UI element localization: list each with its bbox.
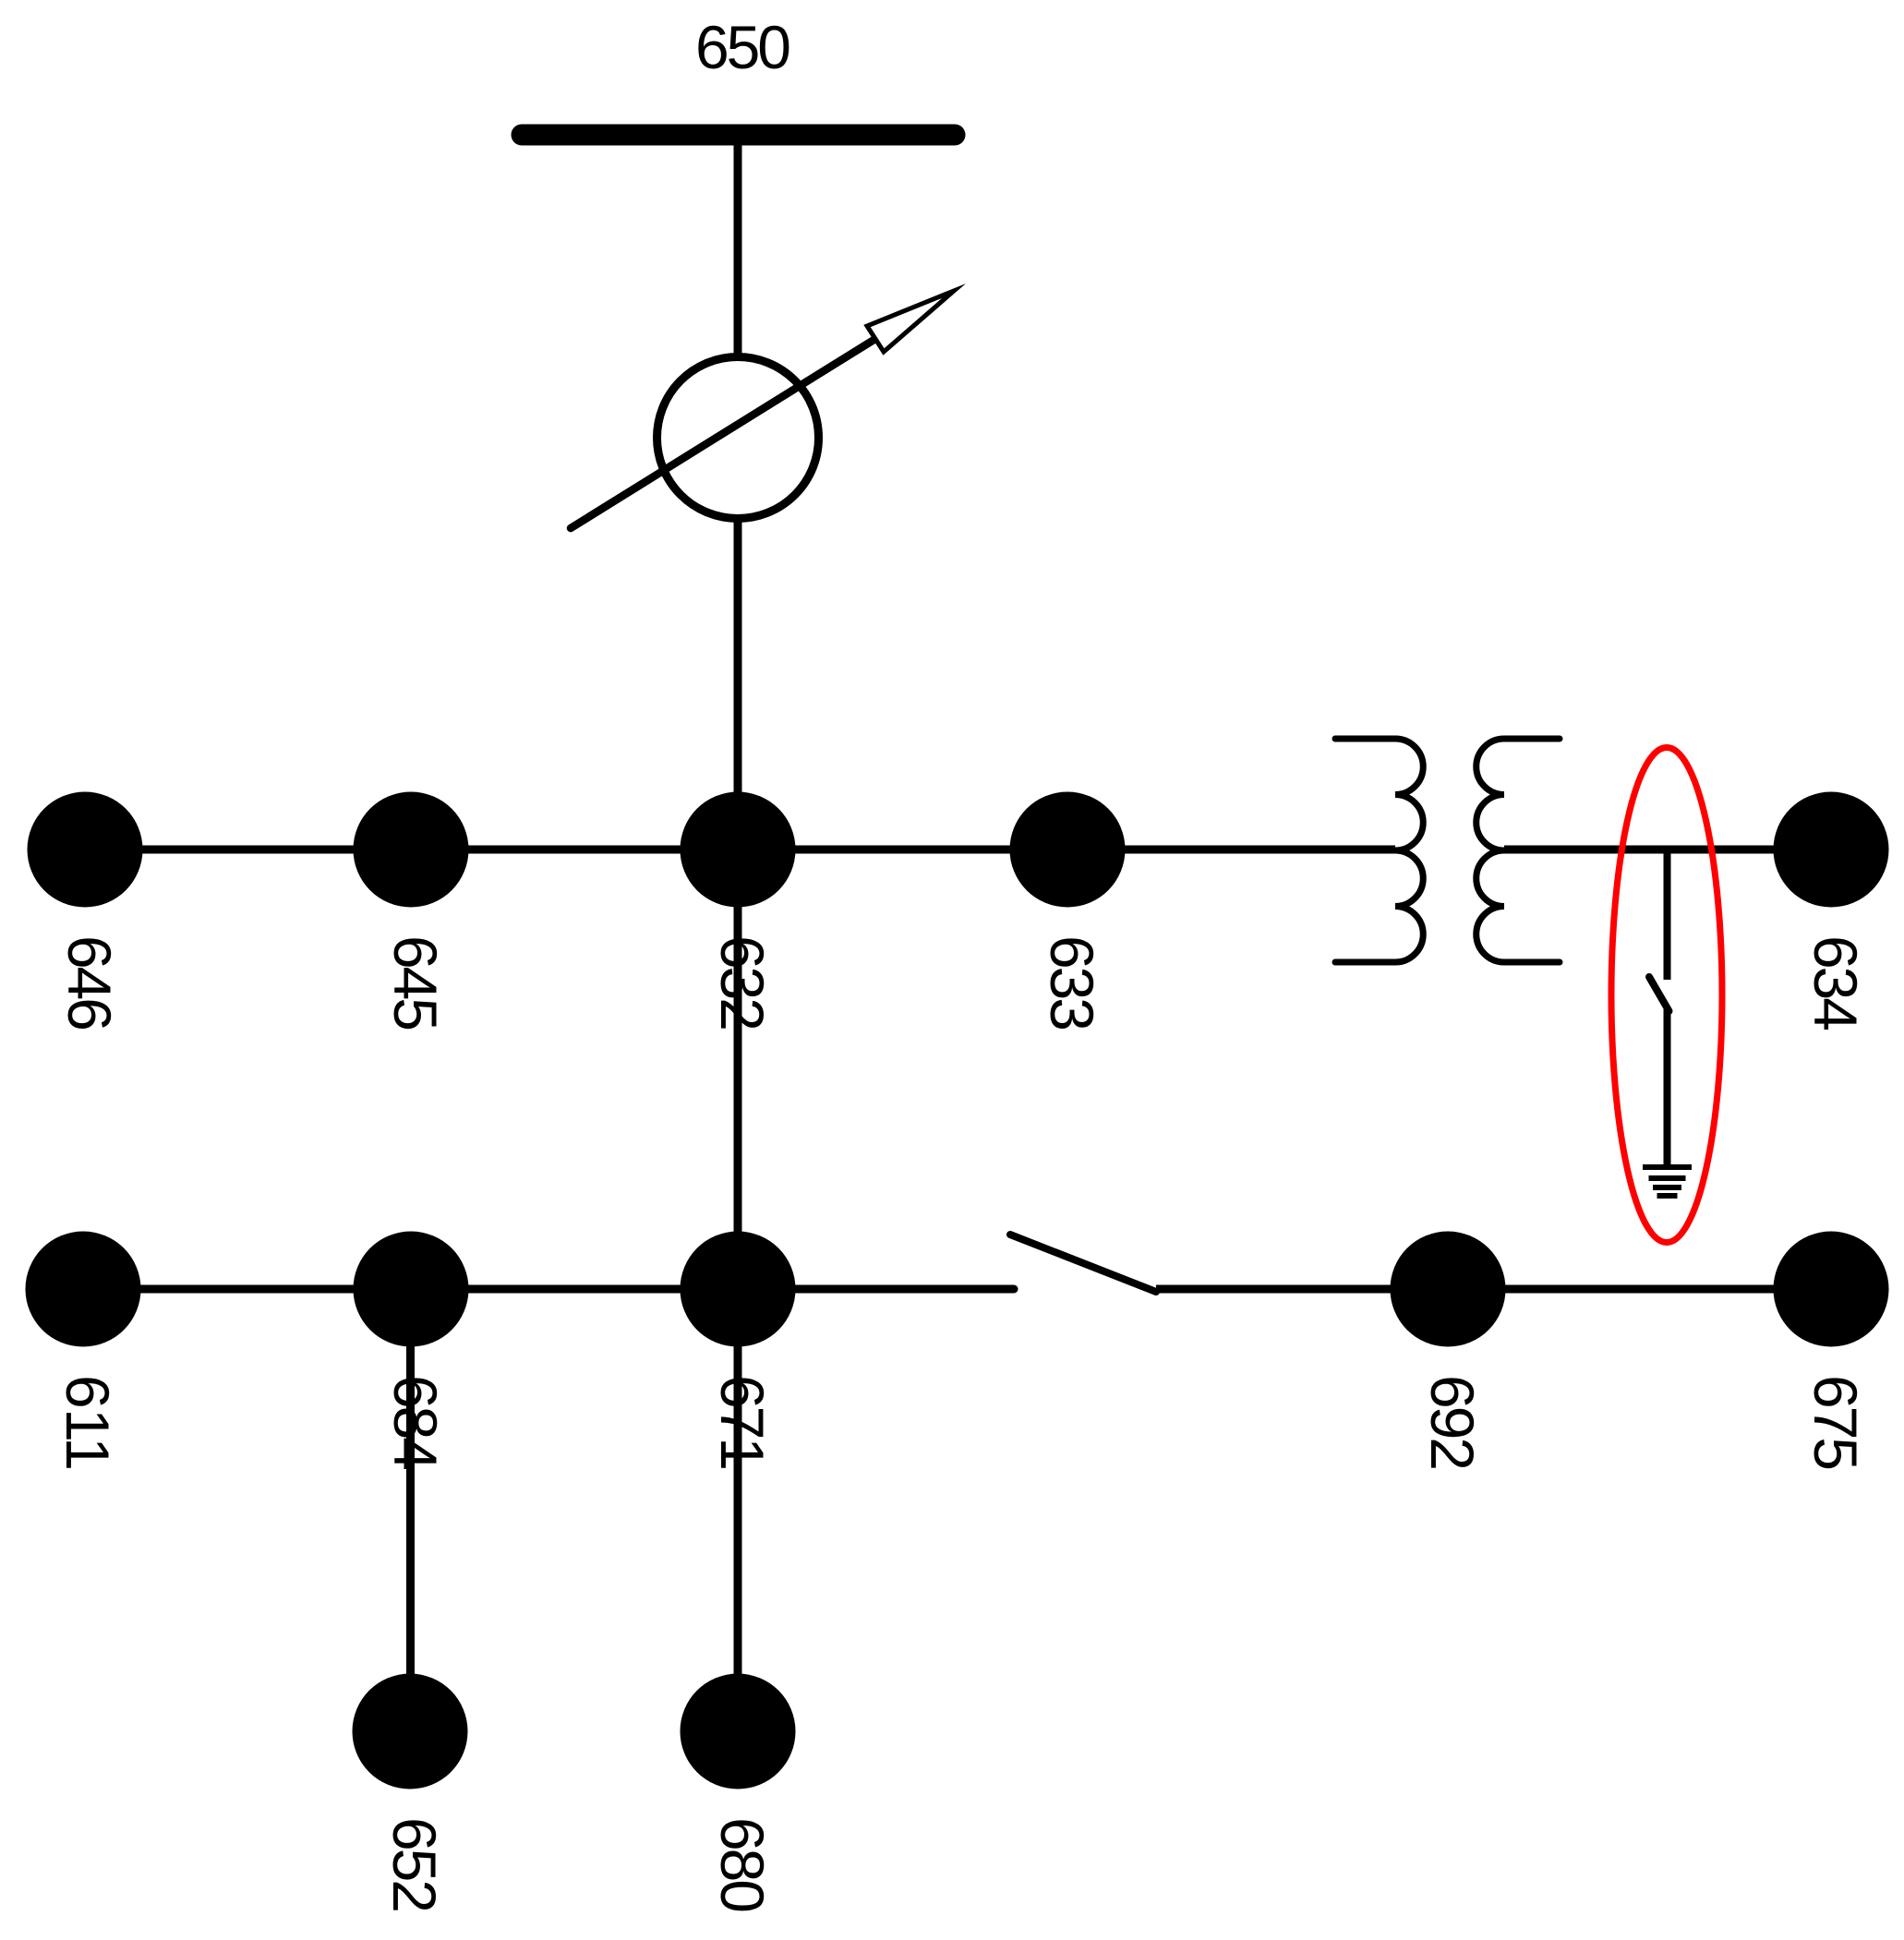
ground symbol bbox=[1643, 1167, 1692, 1196]
bus 650 bbox=[522, 125, 955, 146]
wire switch to 692 to 675 bbox=[1156, 1285, 1831, 1294]
node 634 bbox=[1774, 792, 1889, 908]
switch blade 671-692 bbox=[1010, 1235, 1156, 1292]
wire bus650 to regulator bbox=[734, 137, 742, 360]
wire 671 to 680 bbox=[734, 1289, 742, 1731]
regulator arrow shaft bbox=[571, 339, 875, 528]
node 684 bbox=[354, 1232, 469, 1347]
node 652 bbox=[353, 1674, 468, 1789]
svg-text:680: 680 bbox=[708, 1817, 777, 1913]
node 633 bbox=[1010, 792, 1126, 908]
node 632 bbox=[681, 792, 796, 908]
node 645 bbox=[354, 792, 469, 908]
transformer XFM-1 primary coil bbox=[1335, 739, 1423, 962]
svg-text:632: 632 bbox=[708, 935, 777, 1031]
highlight ellipse (red) around grounding switch bbox=[1611, 748, 1722, 1243]
wire 632 to 671 bbox=[734, 850, 742, 1289]
wire 684 to 652 bbox=[406, 1289, 415, 1731]
svg-text:645: 645 bbox=[381, 935, 450, 1031]
node 692 bbox=[1391, 1232, 1506, 1347]
svg-text:611: 611 bbox=[54, 1375, 122, 1471]
wire 611-684-671 bbox=[83, 1285, 1014, 1294]
grounding switch upper lead bbox=[1664, 850, 1671, 980]
svg-text:634: 634 bbox=[1802, 935, 1870, 1031]
regulator arrow head bbox=[867, 291, 954, 352]
node 671 bbox=[681, 1232, 796, 1347]
wire 646-645-632-633 to transformer primary bbox=[85, 846, 1395, 854]
wire transformer secondary to 634 bbox=[1504, 846, 1831, 854]
svg-text:652: 652 bbox=[380, 1817, 449, 1913]
svg-text:692: 692 bbox=[1418, 1375, 1487, 1471]
svg-text:646: 646 bbox=[55, 935, 124, 1031]
node 611 bbox=[26, 1232, 141, 1347]
voltage regulator RG60 circle bbox=[657, 357, 819, 519]
node 680 bbox=[681, 1674, 796, 1789]
transformer XFM-1 secondary coil bbox=[1476, 739, 1560, 962]
svg-text:671: 671 bbox=[708, 1375, 777, 1471]
svg-text:684: 684 bbox=[381, 1375, 450, 1471]
svg-text:650: 650 bbox=[695, 13, 791, 81]
svg-text:633: 633 bbox=[1038, 935, 1106, 1031]
node 646 bbox=[28, 792, 143, 908]
svg-text:675: 675 bbox=[1802, 1375, 1870, 1471]
grounding switch lower lead bbox=[1664, 1009, 1671, 1165]
grounding switch blade bbox=[1649, 977, 1669, 1011]
wire regulator to node 632 bbox=[734, 515, 742, 850]
node 675 bbox=[1774, 1232, 1889, 1347]
